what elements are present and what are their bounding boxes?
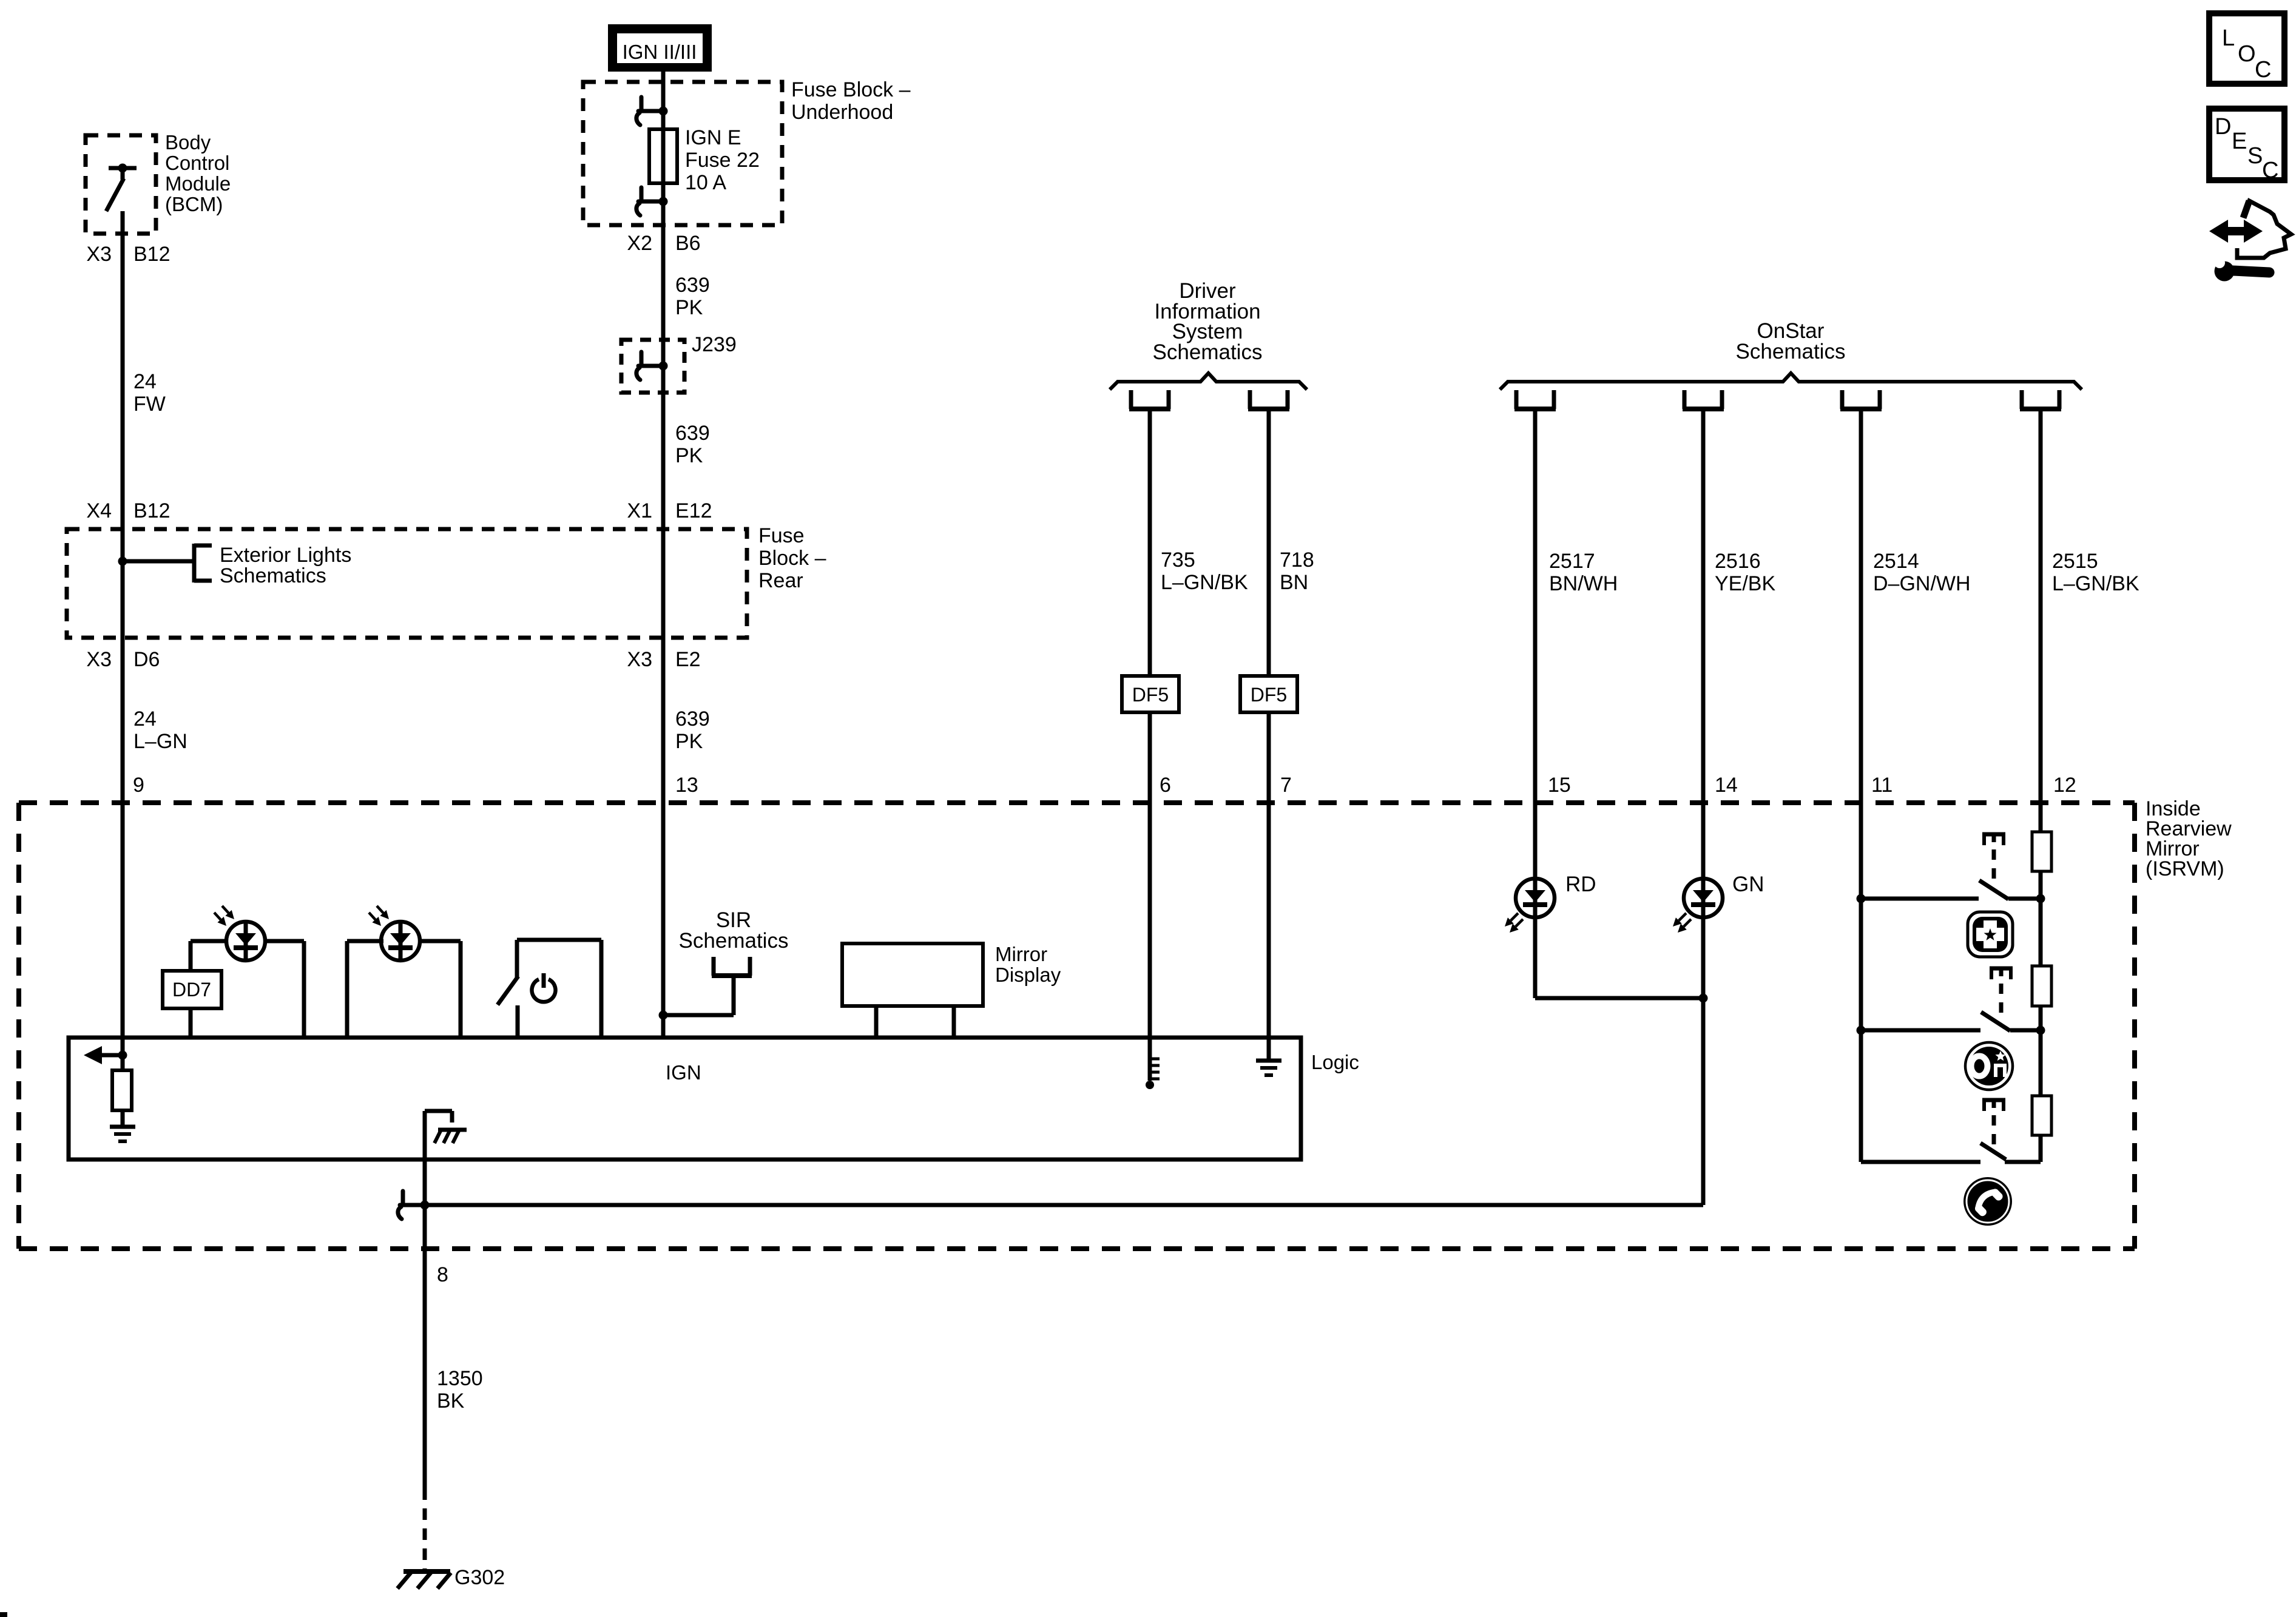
svg-text:2515: 2515 [2052,550,2098,573]
svg-text:B6: B6 [675,232,701,255]
svg-text:Block –: Block – [758,547,826,570]
svg-text:E12: E12 [675,499,712,522]
svg-text:PK: PK [675,444,703,467]
svg-text:D–GN/WH: D–GN/WH [1873,572,1971,595]
svg-text:S: S [2247,143,2263,169]
svg-text:D: D [2215,114,2231,140]
svg-text:E2: E2 [675,648,701,671]
svg-text:X3: X3 [627,648,652,671]
svg-text:639: 639 [675,422,710,445]
svg-text:10 A: 10 A [685,171,726,194]
svg-text:2516: 2516 [1715,550,1761,573]
svg-text:Underhood: Underhood [791,101,893,124]
svg-text:Display: Display [995,964,1061,986]
svg-text:1350: 1350 [437,1367,483,1390]
svg-text:O: O [2238,41,2256,67]
svg-text:X3: X3 [86,243,112,266]
svg-text:L: L [2222,25,2235,51]
svg-text:Fuse Block –: Fuse Block – [791,78,911,101]
svg-text:YE/BK: YE/BK [1715,572,1775,595]
svg-text:12: 12 [2053,774,2076,797]
svg-text:2514: 2514 [1873,550,1919,573]
svg-text:Schematics: Schematics [679,929,789,953]
svg-text:9: 9 [133,774,144,797]
svg-text:639: 639 [675,274,710,297]
svg-text:E: E [2232,129,2247,154]
svg-text:BN: BN [1280,571,1308,594]
svg-text:Module: Module [165,172,231,195]
svg-text:C: C [2262,158,2278,183]
svg-text:J239: J239 [692,333,737,356]
svg-text:735: 735 [1161,549,1195,572]
svg-text:IGN E: IGN E [685,126,741,149]
svg-text:Fuse 22: Fuse 22 [685,149,760,172]
svg-text:8: 8 [437,1263,448,1286]
svg-text:BN/WH: BN/WH [1549,572,1618,595]
svg-text:Schematics: Schematics [1153,340,1263,364]
svg-text:B12: B12 [133,499,171,522]
svg-text:IGN: IGN [666,1061,701,1084]
svg-text:14: 14 [1715,774,1738,797]
svg-text:L–GN/BK: L–GN/BK [1161,571,1248,594]
svg-text:(BCM): (BCM) [165,193,223,215]
svg-text:24: 24 [133,707,157,731]
svg-text:Body: Body [165,131,211,154]
svg-text:PK: PK [675,730,703,753]
svg-text:X2: X2 [627,232,652,255]
svg-text:Exterior Lights: Exterior Lights [220,544,351,567]
svg-text:Schematics: Schematics [1736,340,1846,363]
svg-text:Schematics: Schematics [220,564,326,587]
svg-text:B12: B12 [133,243,171,266]
svg-text:DF5: DF5 [1132,684,1169,706]
svg-text:L–GN: L–GN [133,730,187,753]
svg-text:Control: Control [165,152,229,174]
svg-text:6: 6 [1160,774,1171,797]
svg-text:(ISRVM): (ISRVM) [2146,857,2224,880]
svg-text:GN: GN [1732,873,1764,896]
svg-text:G302: G302 [454,1566,505,1589]
svg-text:15: 15 [1548,774,1571,797]
svg-text:X4: X4 [86,499,112,522]
svg-text:639: 639 [675,707,710,731]
svg-text:IGN II/III: IGN II/III [623,41,697,63]
svg-text:L–GN/BK: L–GN/BK [2052,572,2139,595]
svg-text:Fuse: Fuse [758,524,805,547]
svg-text:X1: X1 [627,499,652,522]
svg-text:D6: D6 [133,648,160,671]
svg-text:Rear: Rear [758,569,803,592]
svg-text:DD7: DD7 [172,979,211,1001]
svg-text:PK: PK [675,296,703,319]
svg-text:X3: X3 [86,648,112,671]
svg-text:7: 7 [1280,774,1292,797]
svg-text:718: 718 [1280,549,1314,572]
svg-text:Logic: Logic [1311,1051,1359,1073]
svg-text:C: C [2255,57,2271,83]
svg-text:11: 11 [1871,774,1893,797]
svg-text:BK: BK [437,1389,465,1413]
svg-text:RD: RD [1565,873,1596,896]
svg-text:FW: FW [133,393,166,416]
svg-text:24: 24 [133,370,157,393]
svg-text:Mirror: Mirror [995,943,1047,965]
svg-text:2517: 2517 [1549,550,1595,573]
svg-text:13: 13 [675,774,698,797]
svg-text:DF5: DF5 [1251,684,1287,706]
